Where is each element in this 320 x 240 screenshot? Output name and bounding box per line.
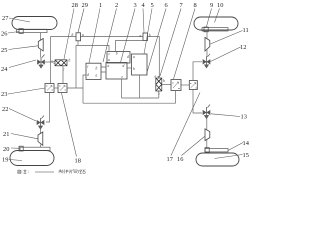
svg-text:29: 29	[82, 2, 88, 9]
label 9	[207, 2, 214, 27]
wire valve 28 to relay box 18	[62, 66, 64, 83]
label 20	[3, 146, 20, 153]
tire 27 (front-left wheel)	[12, 17, 57, 30]
wire relay 23 down to valve 22	[46, 93, 50, 123]
label 25	[1, 46, 38, 54]
wire connectors box1-boxC	[101, 67, 106, 72]
label 3	[121, 2, 137, 63]
label 15	[215, 152, 249, 159]
svg-text:a: a	[155, 75, 157, 79]
svg-text:22: 22	[2, 106, 8, 113]
tire 19 (rear-left wheel)	[10, 151, 54, 166]
label 11	[210, 27, 248, 44]
wire solenoid to relay box 8	[162, 84, 171, 86]
label 27	[2, 15, 30, 22]
label 19	[2, 157, 22, 164]
solenoid valve 28	[54, 60, 68, 66]
label 18	[62, 93, 81, 165]
valve 13 (quick release valve)	[203, 105, 210, 119]
svg-text:23: 23	[1, 91, 7, 98]
rim plate rear-right	[205, 149, 228, 152]
label 10	[215, 2, 224, 23]
wheel speed sensor 14	[205, 148, 209, 153]
label 4	[142, 2, 146, 33]
svg-text:a: a	[108, 58, 110, 62]
brake chamber 25	[38, 39, 43, 52]
svg-text:28: 28	[72, 2, 78, 9]
wire between relay boxes 23 and 18	[54, 87, 58, 89]
label 16	[177, 137, 205, 164]
svg-text:b: b	[116, 52, 118, 56]
svg-text:a: a	[133, 55, 135, 59]
svg-text:d: d	[123, 64, 125, 68]
svg-text:8: 8	[194, 2, 197, 9]
label 2	[103, 2, 118, 62]
tire 15 (rear-right wheel)	[196, 153, 239, 166]
svg-text:b: b	[69, 59, 71, 63]
svg-text:c: c	[109, 52, 111, 56]
label 1	[89, 2, 102, 63]
svg-text:18: 18	[75, 158, 81, 165]
svg-text:16: 16	[177, 156, 183, 163]
svg-text:9: 9	[210, 2, 213, 9]
wire relay 8 to relay 13v	[181, 84, 189, 86]
wire relay 18 right to bottom loop	[67, 88, 176, 103]
svg-text:5: 5	[151, 2, 154, 9]
svg-text:e: e	[122, 75, 124, 79]
brake chamber 21	[38, 132, 43, 145]
label 22	[2, 106, 36, 121]
svg-text:12: 12	[240, 44, 246, 51]
relay box 13v (rear-right)	[189, 81, 197, 90]
legend line sample	[35, 171, 54, 173]
legend text 制动气路	[59, 169, 86, 173]
svg-text:a: a	[96, 74, 98, 78]
label 23	[1, 88, 45, 98]
valve 22 (quick release valve)	[37, 116, 44, 130]
brake chamber 11	[205, 38, 210, 52]
svg-text:26: 26	[1, 31, 7, 38]
svg-text:4: 4	[142, 2, 146, 9]
svg-text:d: d	[87, 73, 89, 77]
label 26	[1, 31, 19, 38]
svg-text:c: c	[159, 92, 161, 96]
label 7	[160, 2, 184, 76]
wheel speed sensor 26	[19, 29, 23, 34]
wire pneumatic main drop x50	[50, 37, 52, 84]
svg-text:11: 11	[243, 27, 249, 34]
svg-text:24: 24	[1, 66, 8, 73]
wire riser box3 to bus	[139, 75, 141, 98]
control box 1 (left of C)	[86, 63, 101, 79]
label 17	[167, 93, 201, 164]
label 14	[228, 140, 250, 151]
wire sensor 29 stub	[77, 41, 79, 46]
valve 24 (quick release valve)	[38, 55, 45, 69]
svg-text:b: b	[72, 33, 74, 37]
wire valve 22 to chamber 21	[40, 127, 42, 148]
svg-text:10: 10	[217, 2, 223, 9]
relay box 18	[58, 84, 67, 93]
ECU box 2 (upper centre)	[107, 52, 130, 64]
label 6	[147, 2, 168, 74]
brake chamber 16	[205, 129, 210, 141]
control box C (below ECU)	[106, 63, 127, 80]
wheel speed sensor 20	[19, 146, 23, 151]
wire rim to chamber 25	[40, 33, 42, 57]
wire riser boxC to bus	[121, 79, 123, 98]
svg-text:14: 14	[243, 140, 250, 147]
rim plate rear-left	[20, 147, 50, 150]
svg-text:1: 1	[99, 2, 102, 9]
label 21	[3, 131, 38, 139]
label 13	[211, 114, 247, 121]
wire left vertical x76	[75, 45, 77, 88]
rim plate front-right	[202, 28, 228, 31]
solenoid valve 7 (centre right, vertical)	[156, 76, 162, 93]
rim plate front-left	[17, 29, 48, 32]
svg-text:20: 20	[3, 146, 9, 153]
wire pneumatic main line y37	[51, 36, 160, 38]
svg-text:b: b	[149, 34, 151, 38]
svg-text:21: 21	[3, 131, 9, 138]
svg-text:b: b	[96, 67, 98, 71]
wire valve 12 to relay top	[193, 62, 202, 80]
relay box 8 (front-right)	[171, 80, 181, 91]
svg-text:a: a	[108, 64, 110, 68]
svg-text:a: a	[82, 33, 84, 37]
wire bottom bus y97.5	[122, 97, 159, 99]
wire y37 drop to solenoid valve x158	[158, 37, 161, 77]
svg-text:19: 19	[2, 157, 8, 164]
wire ECU top to sensor 4	[116, 41, 144, 52]
svg-text:27: 27	[2, 15, 9, 22]
label 8	[174, 2, 197, 79]
svg-text:a: a	[140, 34, 142, 38]
wire connector boxC-box3	[127, 67, 132, 69]
legend note 备注：	[17, 169, 28, 173]
wire riser solenoid to bus	[158, 93, 160, 99]
wheel speed sensor 9	[204, 27, 208, 32]
svg-text:b: b	[163, 79, 165, 83]
svg-text:13: 13	[241, 114, 247, 121]
wire y45 to ECU	[76, 45, 109, 51]
svg-text:6: 6	[165, 2, 168, 9]
pressure sensor 4	[143, 33, 148, 41]
svg-text:c: c	[87, 65, 89, 69]
wire relay bottom to valve 13	[193, 90, 202, 113]
svg-text:b: b	[133, 67, 135, 71]
label 5	[144, 2, 154, 54]
label 12	[211, 44, 247, 62]
control box 3 (right of centre)	[132, 54, 148, 75]
tire 10 (front-right wheel)	[194, 17, 238, 30]
wire valve 13 to chamber 16	[206, 118, 208, 149]
relay box 23	[45, 84, 54, 93]
wire box 1 left port to x83 drop	[83, 75, 86, 103]
label 24	[1, 60, 36, 73]
svg-text:3: 3	[134, 2, 137, 9]
svg-text:25: 25	[1, 47, 7, 54]
svg-text:7: 7	[180, 2, 184, 9]
wire rim to chamber 11	[206, 32, 208, 57]
label 29	[78, 2, 88, 33]
label 28	[64, 2, 78, 59]
svg-text:2: 2	[115, 2, 118, 9]
svg-text:d: d	[127, 55, 129, 59]
svg-text:a: a	[51, 60, 53, 64]
valve 12 (quick release valve)	[203, 54, 210, 68]
svg-text:17: 17	[167, 156, 174, 163]
pressure sensor 29	[76, 33, 81, 41]
wire valve 24 to valve 28	[45, 61, 54, 63]
svg-text:15: 15	[243, 152, 249, 159]
